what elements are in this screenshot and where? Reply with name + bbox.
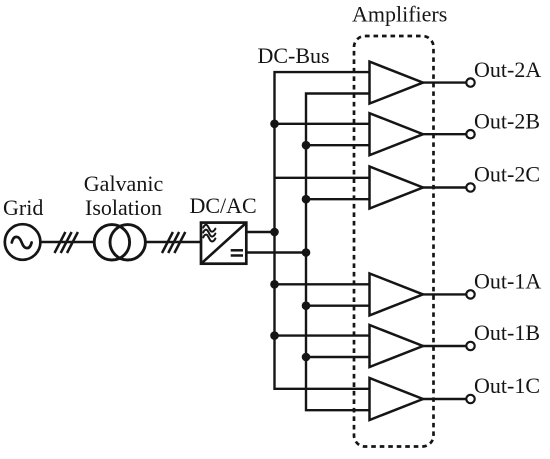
DC+ bus (left vertical rail)	[275, 72, 370, 389]
wire converter to DC- bus	[246, 251, 306, 253]
junction dot DC+ / A5	[270, 331, 279, 340]
wire amp A2 top input	[275, 123, 370, 125]
terminal Out-2C	[466, 183, 474, 191]
DC- bus (right vertical rail)	[306, 94, 370, 411]
wire A4 output	[423, 293, 466, 295]
wire A1 output	[423, 81, 466, 83]
svg-text:Out-1B: Out-1B	[474, 320, 540, 345]
wire amp A2 bottom input	[306, 144, 370, 146]
AC source (grid) circle	[5, 224, 41, 260]
svg-text:Out-1C: Out-1C	[474, 373, 540, 398]
converter DC equals sign	[231, 250, 243, 255]
svg-text:Out-2C: Out-2C	[474, 162, 540, 187]
junction dot DC+ / A2	[270, 120, 279, 129]
three-phase slash marks (set 1)	[55, 232, 78, 253]
svg-text:Out-2B: Out-2B	[474, 108, 540, 133]
wire amp A3 top input	[275, 177, 370, 179]
wire transformer to converter	[145, 241, 201, 243]
wire A6 output	[423, 398, 466, 400]
junction dot DC- / converter	[302, 248, 311, 257]
op-amp A2	[370, 113, 424, 155]
svg-text:Grid: Grid	[3, 195, 43, 220]
terminal Out-1C	[466, 395, 474, 403]
terminal Out-1A	[466, 290, 474, 298]
wire amp A4 bottom input	[306, 305, 370, 307]
op-amp A3	[370, 167, 424, 209]
svg-text:DC-Bus: DC-Bus	[258, 43, 330, 68]
terminal Out-2A	[466, 78, 474, 86]
svg-text:Galvanic: Galvanic	[84, 171, 164, 196]
wire amp A3 bottom input	[306, 198, 370, 200]
op-amp A6	[370, 378, 424, 420]
amplifiers dashed enclosure	[354, 36, 434, 447]
junction dot DC- / A5	[302, 353, 311, 362]
junction dot DC- / A4	[302, 301, 311, 310]
wire A2 output	[423, 133, 466, 135]
converter U1 box	[201, 223, 246, 264]
wire amp A5 top input	[275, 334, 370, 336]
terminal Out-2B	[466, 130, 474, 138]
svg-text:Amplifiers: Amplifiers	[352, 2, 447, 27]
AC source sine wave	[12, 237, 32, 248]
junction dot DC+ / converter	[270, 228, 279, 237]
wire amp A4 top input	[275, 283, 370, 285]
junction dot DC- / A3	[302, 195, 311, 204]
wire amp A5 bottom input	[306, 356, 370, 358]
svg-text:Isolation: Isolation	[85, 195, 162, 220]
transformer T1 (two overlapping circles)	[94, 225, 129, 260]
junction dot DC- / A2	[302, 141, 311, 150]
wire grid to transformer	[40, 241, 94, 243]
converter diagonal	[202, 223, 247, 263]
three-phase slash marks (set 2)	[162, 232, 185, 253]
wire A3 output	[423, 186, 466, 188]
converter AC squiggles	[203, 225, 215, 242]
svg-text:DC/AC: DC/AC	[190, 193, 257, 218]
op-amp A5	[370, 325, 424, 367]
wire A5 output	[423, 345, 466, 347]
op-amp A1	[370, 62, 424, 104]
terminal Out-1B	[466, 342, 474, 350]
wire converter to DC+ bus	[246, 231, 274, 233]
svg-text:Out-2A: Out-2A	[474, 57, 541, 82]
svg-text:Out-1A: Out-1A	[474, 269, 541, 294]
op-amp A4	[370, 273, 424, 315]
junction dot DC+ / A4	[270, 280, 279, 289]
